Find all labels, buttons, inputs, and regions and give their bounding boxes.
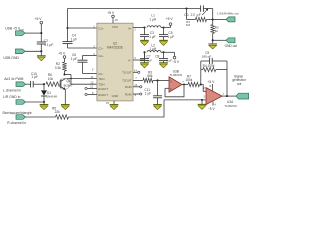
node junction diode/ground xyxy=(43,101,45,105)
svg-text:C1−: C1− xyxy=(98,46,104,50)
node junction summing xyxy=(200,83,202,85)
node junction USB GND xyxy=(40,50,42,56)
capacitor C3 1uF xyxy=(140,28,156,41)
label L/R GND in xyxy=(3,95,20,99)
wire noninverting input xyxy=(164,99,206,101)
label U3A xyxy=(224,100,236,108)
svg-text:BC847: BC847 xyxy=(64,84,73,88)
ground (R2b) xyxy=(208,40,217,49)
svg-text:1.9/140-MHz out: 1.9/140-MHz out xyxy=(217,11,239,15)
wire R-channel long run xyxy=(69,116,165,118)
wire xyxy=(25,32,41,34)
ground (Q1 emitter) xyxy=(61,105,70,110)
svg-text:68k: 68k xyxy=(147,74,153,78)
svg-text:+5 V: +5 V xyxy=(35,17,43,21)
wire to inverting input xyxy=(201,85,206,92)
svg-text:−5 V: −5 V xyxy=(172,60,180,64)
wire xyxy=(64,71,66,75)
node junction V-/C7 xyxy=(143,51,145,53)
svg-text:VCC: VCC xyxy=(112,25,119,29)
node junction output/feedback xyxy=(226,95,228,97)
svg-text:1 µF: 1 µF xyxy=(71,37,77,41)
svg-text:1 µH: 1 µH xyxy=(149,47,156,51)
svg-text:V−: V− xyxy=(128,58,132,62)
capacitor C4 1uF xyxy=(63,28,78,48)
wire feedback left riser xyxy=(200,61,202,85)
wire pin7 T2OUT xyxy=(133,79,143,81)
capacitor C7 1uF xyxy=(140,52,152,63)
wire xyxy=(33,83,44,85)
svg-text:R channel in: R channel in xyxy=(7,121,26,125)
capacitor C6 1uF xyxy=(71,53,88,74)
node junction +5V/C2 xyxy=(40,32,42,42)
node junction R1 tap xyxy=(185,7,187,19)
svg-text:T1OUT: T1OUT xyxy=(122,71,132,75)
op-amp-chip U2 MAX3232E body xyxy=(97,23,133,101)
label Ao3 4x PWM xyxy=(4,77,23,81)
label 1.9/140-MHz out xyxy=(217,11,239,15)
svg-text:100k: 100k xyxy=(185,78,192,82)
pin14 T1OUT no-connect stub xyxy=(133,71,140,73)
svg-text:11: 11 xyxy=(90,75,93,79)
svg-text:1 µF: 1 µF xyxy=(71,57,77,61)
svg-text:1 µH: 1 µH xyxy=(149,17,156,21)
inductor L1 1uH xyxy=(147,14,161,28)
svg-text:22k: 22k xyxy=(55,110,61,114)
svg-text:1 µF: 1 µF xyxy=(31,75,37,79)
label USB GND xyxy=(3,56,19,60)
svg-text:C1 22 pF: C1 22 pF xyxy=(184,13,201,17)
wire pin2 V+ xyxy=(133,27,145,29)
label L channel in xyxy=(3,89,21,93)
ground (C7) xyxy=(140,63,149,68)
svg-text:TL062CN: TL062CN xyxy=(224,104,236,108)
svg-text:L/R GND in: L/R GND in xyxy=(3,95,20,99)
ground (L/R GND) xyxy=(40,105,49,110)
wire feedback right riser xyxy=(226,61,228,96)
node junction collector xyxy=(63,73,71,78)
power +5V VCC pin16 xyxy=(107,11,115,23)
transistor Q1 BC847 xyxy=(59,78,73,90)
svg-text:16: 16 xyxy=(115,18,119,22)
svg-text:+5 V: +5 V xyxy=(58,52,66,56)
connector J8 signal generator out xyxy=(236,93,249,99)
wire U3B feedback loop xyxy=(165,85,184,97)
wire top-left riser xyxy=(67,9,69,29)
label GND out xyxy=(225,44,238,48)
wire U3A output xyxy=(222,95,236,97)
wire pin5 xyxy=(83,73,97,75)
connector J1 USB +5V xyxy=(16,31,26,36)
connector J3 L-channel xyxy=(16,82,26,87)
wire xyxy=(153,79,169,81)
capacitor C1 22pF variable xyxy=(184,5,213,16)
svg-text:1 µF: 1 µF xyxy=(149,35,155,39)
svg-text:10k: 10k xyxy=(48,77,54,81)
svg-text:MAX3232E: MAX3232E xyxy=(107,46,123,50)
resistor R4 100k xyxy=(201,64,227,72)
capacitor C10 1uF xyxy=(31,72,38,88)
label Sine/square/triangle xyxy=(2,111,31,115)
svg-text:T1IN: T1IN xyxy=(98,77,104,81)
pin8 R2IN no-connect stub xyxy=(133,93,142,95)
ground (C3) xyxy=(140,40,149,45)
wire emitter xyxy=(64,90,66,105)
pin9 R2OUT no-connect stub xyxy=(85,93,97,95)
wire T1IN xyxy=(66,78,97,80)
wire T2IN xyxy=(70,78,97,85)
wire top run xyxy=(68,8,201,10)
capacitor C2 0.1uF xyxy=(37,39,54,51)
ground (USB) xyxy=(37,56,46,61)
svg-text:1k: 1k xyxy=(215,29,219,33)
svg-text:3.3k: 3.3k xyxy=(55,66,61,70)
svg-text:180 pF: 180 pF xyxy=(202,55,212,59)
svg-text:out: out xyxy=(237,82,242,86)
ground (C8) xyxy=(159,63,168,68)
resistor R2b 1k xyxy=(211,20,219,41)
svg-text:+5 V: +5 V xyxy=(207,80,215,84)
svg-text:C1+: C1+ xyxy=(98,26,104,30)
svg-text:C8: C8 xyxy=(155,54,159,58)
svg-text:1 µF: 1 µF xyxy=(168,35,174,39)
svg-text:1 µF: 1 µF xyxy=(145,91,151,95)
svg-text:TL062CN: TL062CN xyxy=(170,73,182,77)
connector J5 R-channel xyxy=(16,115,26,120)
connector J7 GND out xyxy=(226,38,235,43)
wire xyxy=(26,83,31,85)
svg-text:USB GND: USB GND xyxy=(3,56,19,60)
node junction base/diode xyxy=(43,83,45,85)
svg-text:Ao3 4x PWM: Ao3 4x PWM xyxy=(4,77,23,81)
wire pin3 xyxy=(68,47,97,49)
svg-text:−5 V: −5 V xyxy=(208,107,216,111)
resistor R5 22k xyxy=(52,106,69,119)
svg-text:R2IN: R2IN xyxy=(125,92,132,96)
wire xyxy=(26,101,45,103)
ground (U2 GND pin15) xyxy=(110,101,119,110)
node junction +input/ground xyxy=(201,99,203,105)
diode D1 1N4148 xyxy=(41,84,57,102)
wire riser to U3A input xyxy=(163,100,165,118)
capacitor C9 180pF xyxy=(201,51,227,64)
svg-text:V+: V+ xyxy=(128,26,132,30)
wire pin6 V- xyxy=(133,52,145,60)
resistor R2 3.3k xyxy=(55,62,67,71)
capacitor C8 1uF xyxy=(155,52,172,63)
pin13 R1IN no-connect stub xyxy=(133,86,142,88)
svg-text:0.1 µF: 0.1 µF xyxy=(44,43,53,47)
pin numbers U2 xyxy=(90,18,138,105)
svg-text:1 µF: 1 µF xyxy=(146,59,152,63)
svg-text:C2+: C2+ xyxy=(98,54,104,58)
wire xyxy=(59,83,62,85)
resistor R3 68k xyxy=(143,70,153,82)
svg-text:Q1: Q1 xyxy=(66,79,70,83)
node junction GND out xyxy=(212,39,226,41)
svg-text:15: 15 xyxy=(106,101,110,105)
node junction C1+ xyxy=(66,27,68,29)
power +5V terminal (Q1) xyxy=(58,52,66,62)
svg-text:C2−: C2− xyxy=(98,72,104,76)
inductor L2 1uH xyxy=(147,43,161,52)
svg-text:GND: GND xyxy=(112,94,120,98)
node junction U3B output xyxy=(182,83,188,85)
svg-text:R4 100k: R4 100k xyxy=(203,64,215,68)
node junction R3/C11 xyxy=(156,79,158,81)
connector J4 L/R GND xyxy=(16,100,26,105)
label signal generator out xyxy=(232,74,247,86)
resistor R7 100k xyxy=(185,75,199,87)
op-amp U3B TL062CN xyxy=(169,70,184,93)
svg-text:L channel in: L channel in xyxy=(3,89,21,93)
node USB +5V label xyxy=(5,27,24,32)
wire xyxy=(26,116,56,118)
power +5V terminal (filter) xyxy=(166,17,174,28)
svg-text:T2OUT: T2OUT xyxy=(122,79,132,83)
op-amp U3A TL062CN xyxy=(203,80,224,111)
wire right riser xyxy=(212,9,214,20)
node junction L1/C5 xyxy=(161,26,171,28)
resistor R6 10k xyxy=(46,73,60,86)
svg-text:+5 V: +5 V xyxy=(166,17,174,21)
connector J6 RF out xyxy=(226,17,235,22)
wire pin4 xyxy=(83,56,97,61)
wire pin1 xyxy=(68,27,97,29)
power -5V terminal (filter) xyxy=(172,52,180,64)
node junction V+/C3 xyxy=(143,26,145,28)
svg-text:14: 14 xyxy=(134,68,138,72)
pin12 R1OUT no-connect stub xyxy=(85,87,97,89)
ground (C5) xyxy=(159,40,168,45)
svg-text:1N4148: 1N4148 xyxy=(46,94,57,98)
node junction L2/C8 xyxy=(161,51,175,53)
svg-text:1 µF: 1 µF xyxy=(166,59,172,63)
svg-text:R2OUT: R2OUT xyxy=(98,93,108,97)
svg-text:+5 V: +5 V xyxy=(107,11,115,15)
svg-text:1M: 1M xyxy=(186,23,191,27)
svg-text:GND out: GND out xyxy=(225,44,238,48)
svg-text:R1OUT: R1OUT xyxy=(98,87,108,91)
label R channel in xyxy=(7,121,26,125)
power +5V terminal (USB rail) xyxy=(35,17,43,33)
resistor R1 1M xyxy=(186,17,213,27)
svg-text:R1IN: R1IN xyxy=(125,85,132,89)
node junction RF out xyxy=(212,18,226,20)
capacitor C11 1uF xyxy=(144,80,162,104)
ground (C11) xyxy=(153,105,162,110)
wire xyxy=(25,50,41,52)
connector J2 USB GND xyxy=(16,49,26,54)
capacitor C5 1uF xyxy=(159,28,174,41)
ground (U3A +input) xyxy=(198,104,207,109)
